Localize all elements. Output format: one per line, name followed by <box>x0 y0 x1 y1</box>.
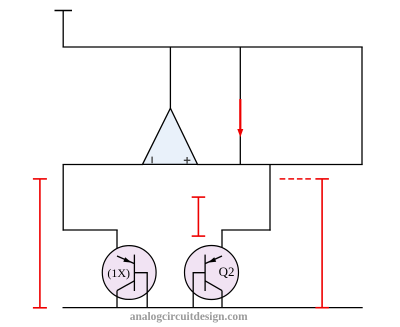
op-amp minus marker (rotated) <box>151 157 153 164</box>
wire: ground rail <box>63 307 363 309</box>
svg-text:Q2: Q2 <box>219 264 235 279</box>
transistor Q2 emitter arrow (PNP, points to base bar) <box>208 257 216 262</box>
red dashed projection line <box>280 178 311 180</box>
transistor Q1 body circle <box>102 246 156 300</box>
wire: op-amp output drop <box>169 47 171 109</box>
red dimension bar left (VBE1) <box>33 179 47 308</box>
transistor Q1 collector stub <box>116 291 118 308</box>
svg-text:analogcircuitdesign.com: analogcircuitdesign.com <box>130 311 248 323</box>
transistor Q2 body circle <box>185 246 239 300</box>
wire: right jog to Q2 emitter <box>221 229 270 231</box>
wire: plus input node wire <box>197 164 363 166</box>
op-amp U1 triangle <box>143 108 198 164</box>
wire: Q2 emitter stub <box>221 230 223 257</box>
transistor Q2 collector stub <box>221 291 223 308</box>
supply stub bar <box>55 10 73 12</box>
wire: Q1 emitter stub <box>116 230 118 257</box>
transistor Q2 symbol <box>193 255 222 307</box>
red dimension bar right (VBE2) <box>315 179 329 308</box>
wire: current branch at x=240 <box>239 47 241 165</box>
wire: supply stem <box>62 11 64 48</box>
wire: minus input node wire <box>63 164 144 166</box>
svg-text:(1X): (1X) <box>107 266 130 280</box>
transistor Q1 emitter arrow (PNP, points to base bar) <box>123 257 131 262</box>
red current arrow I <box>237 99 243 137</box>
transistor Q1 symbol <box>117 255 147 307</box>
op-amp plus marker <box>184 157 191 164</box>
wire: top rail <box>63 46 363 48</box>
wire: left branch drop <box>62 165 64 231</box>
wire: right branch drop <box>269 165 271 231</box>
wire: left jog to Q1 emitter <box>63 229 118 231</box>
red dimension bar middle (delta VBE) <box>192 197 206 236</box>
wire: right rail drop <box>361 47 363 165</box>
